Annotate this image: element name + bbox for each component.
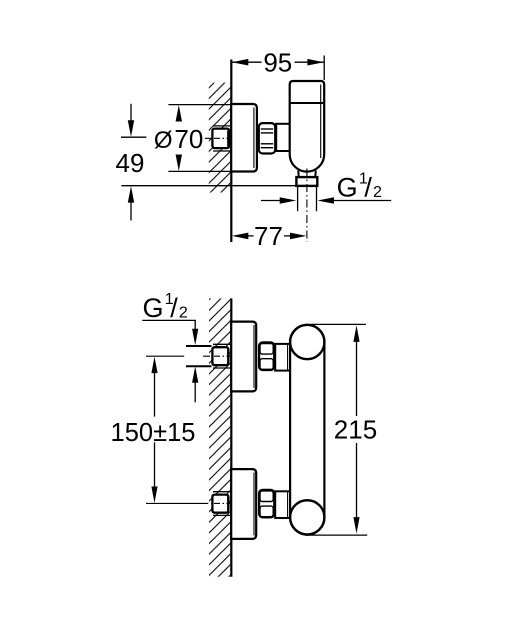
svg-text:70: 70: [174, 124, 203, 154]
connector between nut and body (top view): [276, 124, 290, 151]
in-wall socket lines (bottom connection): [213, 491, 231, 493]
svg-text:77: 77: [254, 221, 283, 251]
svg-text:49: 49: [116, 148, 145, 178]
top boss circle: [290, 325, 324, 359]
mixer body capsule: [290, 325, 324, 535]
valve cap separation line: [290, 102, 325, 104]
connector (bottom view, bottom connection): [275, 491, 290, 518]
wall line (top view): [230, 60, 232, 243]
dimension 49: down arrow: [130, 104, 132, 122]
supply pipe (bottom view top connection): [186, 345, 212, 347]
dimension 95: extension line right: [323, 56, 325, 81]
svg-text:2: 2: [179, 305, 188, 322]
dimension 49: top tick line at inlet centre: [121, 136, 146, 138]
dimension 49: up arrow: [128, 186, 134, 203]
svg-text:G: G: [143, 293, 164, 323]
in-wall square nut (top connection): [212, 347, 228, 365]
dimension 95: right arrow: [307, 59, 324, 66]
dimension 77: right arrow: [290, 233, 307, 240]
connector (bottom view, top connection): [275, 344, 290, 371]
outlet thread: [296, 177, 317, 186]
dimension 77: dimension line: [248, 235, 254, 237]
dimension 150±15: down arrow: [151, 487, 157, 504]
flange (bottom view, top connection): [231, 322, 256, 392]
svg-text:150±15: 150±15: [111, 419, 196, 447]
dimension 77: left arrow: [232, 233, 249, 240]
inlet socket lines behind wall: [213, 125, 231, 127]
dimension 95: dimension line: [232, 61, 262, 63]
dimension 95: left arrow: [232, 59, 249, 66]
svg-text:2: 2: [373, 184, 382, 201]
valve body (top view): [290, 81, 325, 172]
dimension Ø70: extension line bottom: [168, 170, 230, 172]
flange (bottom view, bottom connection): [231, 469, 256, 539]
dimension 215: extension line top: [311, 323, 366, 325]
dimension Ø70: down arrow: [176, 155, 182, 172]
dimension 215: down arrow: [353, 517, 359, 534]
dimension Ø70: up arrow: [176, 105, 182, 122]
svg-text:/: /: [170, 293, 178, 323]
inlet square fitting: [212, 129, 229, 149]
wall line (bottom view): [230, 298, 232, 576]
bottom boss circle: [290, 500, 324, 534]
svg-text:215: 215: [334, 415, 377, 445]
G 1/2 leader line: [142, 319, 196, 321]
dimension 150±15: up arrow: [151, 357, 157, 374]
G 1/2 arrows (top view): [261, 200, 281, 202]
wall hatch (top view): [209, 83, 231, 193]
dimension Ø70: extension line top: [168, 104, 230, 106]
outlet neck: [298, 171, 316, 178]
dimension 215: extension line bottom: [305, 534, 367, 536]
hex nut (bottom view, bottom connection): [259, 490, 274, 518]
G 1/2 down arrow at pipe top: [192, 329, 198, 346]
outlet thread extension lines: [297, 186, 299, 211]
inlet centreline dash: [205, 137, 232, 139]
svg-text:G: G: [337, 172, 358, 202]
G 1/2 up arrow at pipe bottom: [192, 366, 198, 383]
outlet centreline: [306, 169, 308, 243]
in-wall square nut (bottom connection): [212, 495, 228, 513]
flange (top view): [231, 104, 257, 172]
svg-text:95: 95: [263, 48, 292, 78]
top connection centreline: [146, 355, 184, 357]
svg-text:/: /: [364, 172, 372, 202]
hex nut (bottom view, top connection): [259, 342, 274, 370]
bottom connection centreline: [146, 502, 208, 504]
dimension 215: up arrow: [353, 325, 359, 342]
wall hatch (bottom view): [209, 298, 230, 576]
in-wall socket lines (top connection): [213, 343, 231, 345]
hex nut (top view): [259, 123, 275, 153]
svg-text:Ø: Ø: [154, 127, 173, 154]
dimension 49: bottom extension line: [121, 185, 316, 187]
